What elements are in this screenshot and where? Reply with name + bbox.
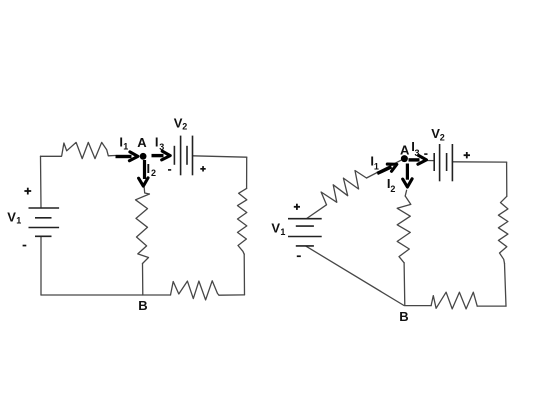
wire: circuit1 bottom right segment bbox=[219, 294, 245, 296]
svg-text:1: 1 bbox=[16, 216, 21, 226]
resistor circuit2 middle branch bbox=[397, 196, 411, 263]
battery V1 circuit2 long plate bbox=[288, 236, 322, 238]
label minus at battery V2 circuit1 bbox=[168, 169, 171, 171]
battery V1 circuit2 long plate (positive, top) bbox=[288, 218, 322, 220]
label plus at battery V1 circuit1 bbox=[24, 190, 31, 192]
svg-text:2: 2 bbox=[182, 121, 187, 131]
battery V1 circuit2 short plate (negative, bottom) bbox=[296, 245, 314, 247]
battery V1 circuit1 short plate (negative, bottom) bbox=[35, 235, 52, 237]
battery V1 circuit1 short plate bbox=[35, 217, 52, 219]
wire: circuit2 from V2 positive plate to top-right corner bbox=[452, 161, 506, 163]
svg-text:1: 1 bbox=[123, 142, 128, 152]
resistor circuit1 middle branch bbox=[136, 194, 150, 264]
current arrow I2 circuit2 bbox=[406, 164, 409, 180]
resistor circuit1 right branch bbox=[238, 188, 247, 254]
label plus at battery V2 circuit2 bbox=[464, 154, 470, 156]
svg-text:2: 2 bbox=[440, 133, 445, 143]
label minus at battery V2 circuit2 bbox=[424, 153, 427, 155]
svg-text:A: A bbox=[400, 142, 410, 157]
svg-text:2: 2 bbox=[151, 168, 156, 178]
resistor circuit2 bottom (between node B and right branch) bbox=[431, 292, 477, 309]
wire: circuit1 middle branch lower vertical to node B bbox=[142, 264, 144, 296]
battery V2 circuit1 short plate (negative, left) bbox=[173, 146, 175, 165]
wire: circuit2 from diagonal resistor to V1 top plate bbox=[307, 205, 327, 219]
svg-text:V: V bbox=[271, 221, 280, 236]
resistor circuit1 bottom (between node B and right branch) bbox=[171, 281, 220, 300]
resistor circuit1 top (between V1 and node A) bbox=[62, 142, 115, 158]
current arrow I3 circuit1 bbox=[152, 154, 164, 157]
label minus at battery V1 circuit2 bbox=[297, 255, 301, 257]
wire: circuit2 stub from I3 arrowhead to V2 negative plate bbox=[426, 160, 434, 162]
wire: circuit2 diagonal from node A down to resistor bbox=[367, 159, 405, 178]
wire: circuit2 right side upper vertical bbox=[506, 162, 508, 196]
wire: circuit1 bottom segment through node B bbox=[41, 294, 171, 296]
battery V2 circuit2 short plate (inner) bbox=[446, 153, 448, 171]
svg-text:V: V bbox=[7, 209, 16, 224]
wire: circuit1 top-left segment bbox=[41, 155, 62, 157]
label plus at battery V1 circuit2 bbox=[294, 206, 300, 208]
battery V1 circuit1 long plate bbox=[29, 227, 60, 229]
wire: circuit2 middle branch lower vertical to node B bbox=[403, 263, 406, 306]
battery V1 circuit1 long plate (positive, top) bbox=[29, 207, 60, 209]
wire: circuit2 bottom right segment bbox=[477, 305, 506, 307]
wire: circuit1 stub below I2 arrowhead bbox=[144, 188, 149, 195]
battery V1 circuit2 short plate bbox=[296, 225, 314, 227]
battery V2 circuit1 short plate (inner) bbox=[186, 146, 188, 165]
wire: circuit2 right side lower vertical bbox=[505, 264, 507, 307]
wire: circuit2 bottom left segment from node B bbox=[405, 305, 431, 307]
node A circuit2 bbox=[401, 155, 408, 162]
current arrow I2 circuit1 bbox=[143, 160, 146, 179]
svg-text:1: 1 bbox=[374, 161, 379, 171]
label minus at battery V1 circuit1 bbox=[23, 245, 27, 247]
current arrow I1 circuit2 bbox=[377, 165, 393, 175]
wire: circuit1 left side upper vertical bbox=[40, 156, 43, 208]
svg-text:B: B bbox=[399, 309, 408, 324]
svg-text:1: 1 bbox=[280, 227, 285, 237]
battery V2 circuit1 tall plate (positive, right) bbox=[192, 136, 194, 176]
svg-text:B: B bbox=[138, 298, 147, 313]
wire: circuit1 right side lower vertical bbox=[243, 254, 245, 295]
current arrow I1 circuit1 bbox=[116, 155, 132, 158]
svg-text:3: 3 bbox=[415, 148, 420, 158]
wire: circuit1 from V2 positive plate to top-right corner bbox=[193, 156, 247, 157]
wire: circuit1 right side upper vertical bbox=[246, 157, 248, 188]
wire: circuit1 left side lower vertical bbox=[40, 236, 42, 295]
svg-text:3: 3 bbox=[159, 142, 164, 152]
wire: circuit2 middle branch stub below I2 arrow bbox=[405, 190, 406, 196]
node A circuit1 bbox=[140, 153, 147, 160]
current arrow I3 circuit2 bbox=[409, 158, 420, 161]
battery V2 circuit2 short plate (negative, left) bbox=[433, 153, 435, 171]
svg-text:2: 2 bbox=[390, 184, 395, 194]
battery V2 circuit2 tall plate bbox=[439, 144, 441, 181]
resistor circuit2 diagonal (between V1 and node A) bbox=[321, 171, 366, 205]
battery V2 circuit1 tall plate bbox=[180, 136, 182, 176]
svg-text:I: I bbox=[155, 134, 159, 149]
battery V2 circuit2 tall plate (positive, right) bbox=[451, 144, 453, 181]
svg-text:A: A bbox=[137, 135, 147, 150]
wire: circuit2 diagonal from V1 bottom plate to node B bbox=[306, 246, 404, 305]
resistor circuit2 right branch bbox=[498, 196, 508, 263]
label plus at battery V2 circuit1 bbox=[200, 168, 205, 170]
svg-text:I: I bbox=[147, 161, 151, 176]
